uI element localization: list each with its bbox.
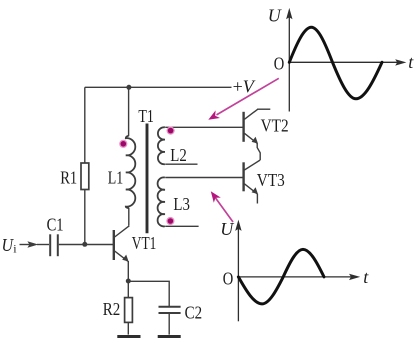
svg-text:C2: C2 bbox=[185, 302, 203, 322]
wire emitter junction to C2 bbox=[128, 281, 169, 306]
svg-text:VT1: VT1 bbox=[132, 233, 157, 253]
annotation arrow to L2/VT2 lead bbox=[217, 78, 279, 115]
capacitor C2 bbox=[159, 306, 181, 308]
svg-text:R2: R2 bbox=[103, 299, 121, 319]
polarity dot L3 bbox=[166, 217, 174, 225]
wire arrow to C1 bbox=[37, 244, 49, 246]
graph 1 sine wave bbox=[289, 27, 382, 99]
svg-text:U: U bbox=[220, 219, 234, 239]
node base junction bbox=[82, 242, 87, 247]
wire VT3 emitter stub bbox=[256, 194, 258, 204]
inductor L1 bbox=[126, 136, 136, 208]
input node Ui bbox=[2, 235, 18, 256]
wire R2 to ground bbox=[127, 322, 129, 334]
svg-text:O: O bbox=[274, 54, 285, 74]
svg-text:R1: R1 bbox=[60, 168, 77, 188]
wire R1 top to +V rail bbox=[84, 87, 86, 163]
svg-text:O: O bbox=[223, 268, 234, 288]
wire emitter junction to R2 bbox=[127, 281, 129, 298]
node rail junction bbox=[126, 85, 131, 90]
graph 2 t axis bbox=[238, 276, 352, 278]
resistor R1 bbox=[81, 163, 89, 190]
polarity dot L1 bbox=[119, 140, 127, 148]
graph 1 labels bbox=[268, 5, 415, 73]
ground under R2 bbox=[117, 335, 140, 338]
transistor VT2 bbox=[244, 109, 258, 143]
node emitter junction bbox=[126, 279, 131, 284]
graph 2 labels bbox=[220, 219, 369, 288]
wire VT2 emitter to VT3 collector bbox=[257, 143, 260, 160]
graph 2 sine wave bbox=[238, 249, 324, 304]
transformer T1 core bbox=[146, 124, 149, 234]
svg-text:VT2: VT2 bbox=[261, 115, 289, 135]
svg-text:U: U bbox=[268, 5, 282, 25]
capacitor C1 bbox=[49, 234, 51, 256]
wire L2 top lead to VT2 base bbox=[165, 126, 243, 128]
inductor L2 bbox=[158, 127, 165, 164]
transistor VT3 bbox=[244, 160, 261, 194]
resistor R2 bbox=[125, 298, 133, 323]
wire L2 bottom lead bbox=[165, 163, 197, 165]
wire VT1 emitter down bbox=[127, 261, 129, 281]
svg-text:U: U bbox=[2, 235, 14, 255]
wire L3 top lead to VT3 base bbox=[165, 177, 243, 179]
polarity dot L2 bbox=[167, 127, 175, 135]
graph 1 U axis bbox=[288, 16, 290, 112]
svg-text:L1: L1 bbox=[108, 167, 124, 187]
T1 label bbox=[138, 106, 154, 126]
inductor L3 bbox=[158, 177, 165, 226]
wire rail to L1 bbox=[128, 87, 130, 136]
wire C2 to ground bbox=[168, 314, 170, 335]
wire L3 bottom lead bbox=[165, 225, 198, 227]
ground under C2 bbox=[158, 335, 181, 338]
svg-text:VT3: VT3 bbox=[257, 170, 285, 190]
graph 2 U axis bbox=[237, 227, 239, 321]
wire L1 to VT1 collector bbox=[128, 208, 130, 226]
svg-text:L3: L3 bbox=[173, 194, 190, 214]
wire VT2 collector stub bbox=[257, 108, 270, 110]
wire C1 to VT1 base bbox=[59, 244, 114, 246]
+V rail bbox=[85, 86, 232, 88]
annotation arrow to L3/VT3 lead bbox=[215, 197, 233, 222]
svg-text:t: t bbox=[363, 267, 369, 287]
graph 1 t axis bbox=[289, 61, 398, 63]
svg-text:T1: T1 bbox=[138, 106, 154, 126]
svg-text:t: t bbox=[408, 52, 414, 72]
svg-text:L2: L2 bbox=[170, 145, 187, 165]
transistor VT1 bbox=[114, 226, 130, 262]
svg-text:i: i bbox=[13, 242, 17, 256]
svg-text:C1: C1 bbox=[47, 215, 64, 235]
input arrow bbox=[20, 244, 31, 246]
wire R1 bottom bbox=[84, 190, 86, 245]
+V label bbox=[233, 76, 256, 96]
